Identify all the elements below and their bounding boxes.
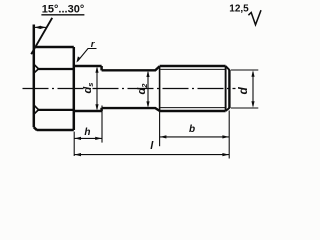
thread major diameter lines bbox=[160, 66, 226, 111]
head face line lower bbox=[34, 105, 39, 114]
d dimension line bbox=[251, 70, 254, 108]
h extension lines bbox=[74, 106, 102, 157]
15...30 underline bbox=[41, 14, 84, 16]
thread boundary line bbox=[159, 66, 161, 111]
surface roughness symbol 12,5 bbox=[248, 10, 261, 25]
svg-text:15°...30°: 15°...30° bbox=[42, 4, 84, 16]
d dimension extension lines bbox=[231, 70, 258, 108]
thread minor diameter lines bbox=[160, 69, 225, 107]
hex head outline bbox=[34, 25, 74, 131]
angle dimension arrow 15..30 bbox=[34, 26, 46, 29]
head face line upper bbox=[34, 64, 39, 73]
shank (ds section) outline bbox=[74, 66, 102, 111]
centerline (bolt axis) bbox=[23, 88, 236, 90]
r leader bbox=[76, 49, 96, 63]
svg-text:12,5: 12,5 bbox=[229, 4, 249, 15]
d2 dimension line bbox=[146, 71, 149, 108]
head chamfer line extended to angle callout bbox=[31, 18, 52, 54]
svg-text:b: b bbox=[189, 124, 195, 135]
b dimension line bbox=[160, 135, 230, 138]
svg-text:d: d bbox=[236, 87, 250, 95]
l dimension line bbox=[74, 153, 229, 156]
d2 section outline bbox=[102, 66, 160, 111]
svg-text:h: h bbox=[84, 127, 90, 138]
end face bbox=[228, 70, 230, 108]
b extension lines bbox=[160, 111, 230, 159]
ds dimension line bbox=[95, 66, 98, 111]
end chamfer edges bbox=[226, 66, 230, 70]
h dimension line bbox=[74, 137, 102, 140]
end chamfer circle line bbox=[225, 66, 227, 111]
